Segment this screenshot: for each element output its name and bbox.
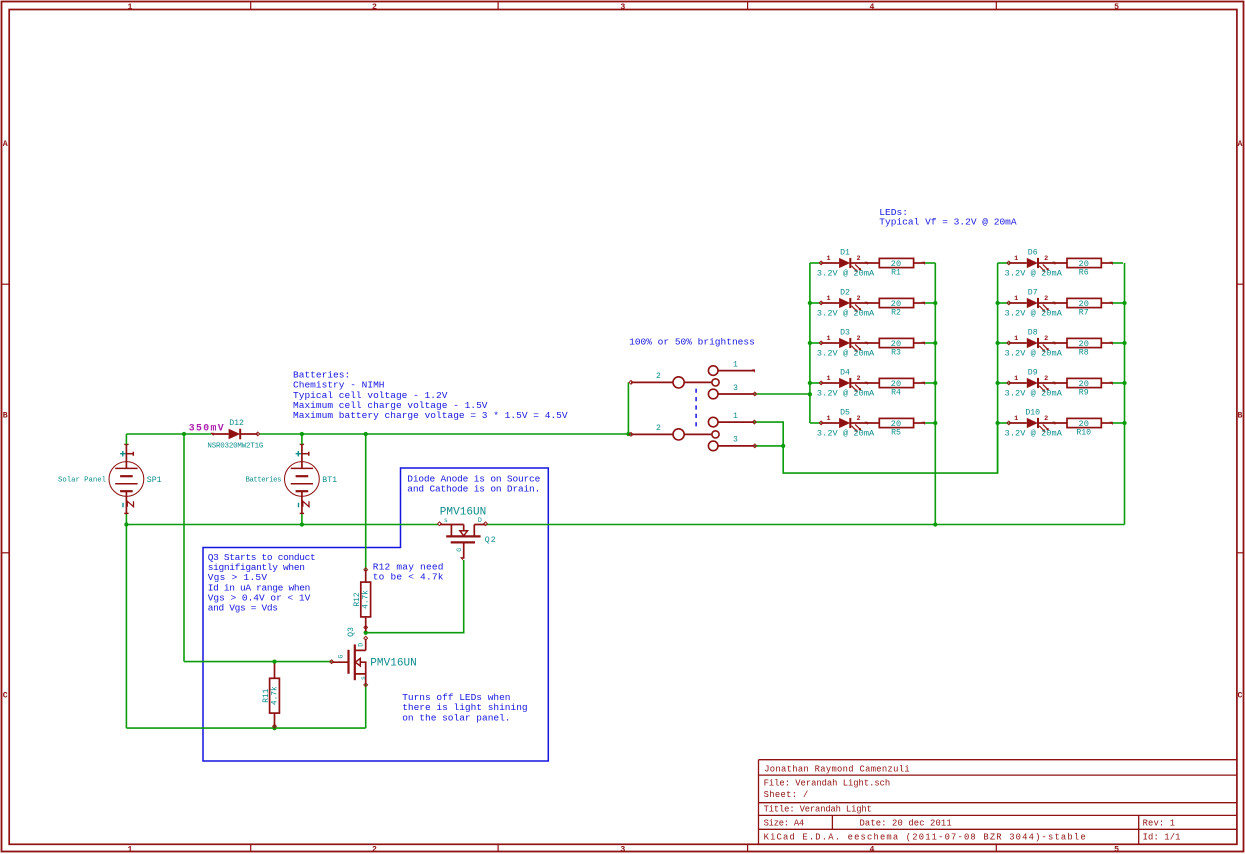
svg-text:2: 2: [856, 335, 860, 343]
svg-text:2: 2: [1044, 415, 1048, 423]
wire left vertical to bottom: [125, 525, 127, 729]
svg-text:3.2V @ 20mA: 3.2V @ 20mA: [817, 268, 875, 278]
svg-text:Solar Panel: Solar Panel: [58, 477, 106, 485]
svg-text:2: 2: [372, 845, 377, 854]
LED D8: [998, 342, 1009, 344]
svg-text:1: 1: [826, 255, 830, 263]
battery symbol BT1: [285, 462, 320, 497]
resistor R4: [879, 378, 913, 387]
svg-text:Batteries: Batteries: [246, 477, 282, 485]
svg-text:PMV16UN: PMV16UN: [370, 657, 416, 669]
svg-text:3.2V @ 20mA: 3.2V @ 20mA: [1005, 388, 1063, 398]
svg-text:B: B: [3, 412, 8, 421]
svg-text:20: 20: [891, 379, 901, 389]
svg-text:D9: D9: [1028, 369, 1038, 378]
wire bottom horizontal: [126, 727, 365, 729]
wire switch bottom pin3 stub: [755, 445, 783, 447]
svg-text:2: 2: [1044, 295, 1048, 303]
svg-text:3: 3: [733, 384, 738, 393]
svg-text:s: s: [360, 676, 367, 680]
wire switch pole vertical: [627, 382, 629, 434]
svg-text:1: 1: [826, 335, 830, 343]
svg-text:1: 1: [1014, 295, 1018, 303]
LED D4: [810, 382, 821, 384]
svg-text:Title: Verandah Light: Title: Verandah Light: [764, 805, 872, 815]
note box around Q3 and Q2 notes: [203, 468, 548, 761]
svg-text:3.2V @ 20mA: 3.2V @ 20mA: [817, 308, 875, 318]
svg-text:3.2V @ 20mA: 3.2V @ 20mA: [817, 388, 875, 398]
svg-text:1: 1: [1014, 415, 1018, 423]
LED D9: [998, 382, 1009, 384]
wire lower net right of Q2: [486, 524, 1124, 526]
svg-text:R2: R2: [891, 309, 901, 318]
wire Q3 source down: [365, 685, 367, 729]
wire gate vertical: [183, 434, 185, 662]
resistor R7: [1067, 298, 1101, 307]
switch pole A: [631, 381, 673, 383]
svg-text:3: 3: [733, 436, 738, 445]
junction BT1+: [300, 432, 304, 436]
svg-text:D5: D5: [840, 409, 850, 418]
junction Q3 drain / R12 bottom: [364, 626, 368, 630]
svg-text:PMV16UN: PMV16UN: [440, 507, 486, 519]
svg-text:Maximum battery charge voltage: Maximum battery charge voltage = 3 * 1.5…: [293, 410, 568, 421]
resistor R6: [1067, 258, 1101, 267]
svg-text:20: 20: [891, 259, 901, 269]
svg-text:2: 2: [656, 372, 661, 381]
wire LED col1 left vertical: [809, 263, 811, 423]
svg-text:2: 2: [856, 295, 860, 303]
LED D3: [810, 342, 821, 344]
switch linkage dashed line: [695, 389, 697, 429]
svg-text:4: 4: [869, 3, 874, 12]
svg-text:Rev: 1: Rev: 1: [1143, 819, 1175, 829]
svg-text:4.7k: 4.7k: [363, 590, 371, 609]
svg-text:20: 20: [1079, 259, 1089, 269]
svg-text:R6: R6: [1079, 269, 1089, 278]
svg-text:20: 20: [891, 339, 901, 349]
svg-text:File: Verandah Light.sch: File: Verandah Light.sch: [764, 779, 891, 789]
svg-text:5: 5: [1114, 845, 1119, 854]
svg-text:G: G: [456, 548, 463, 552]
junction R12 branch: [364, 432, 368, 436]
svg-text:4: 4: [869, 845, 874, 854]
resistor R2: [879, 298, 913, 307]
battery symbol SP1: [109, 462, 144, 497]
border row ticks: [2, 283, 10, 285]
svg-text:D8: D8: [1028, 329, 1038, 338]
resistor R9: [1067, 378, 1101, 387]
svg-text:2: 2: [1044, 255, 1048, 263]
wire D12 cathode to switch: [259, 433, 632, 435]
junction SP1-: [124, 522, 128, 526]
svg-text:on the solar panel.: on the solar panel.: [402, 712, 510, 723]
svg-text:R5: R5: [891, 429, 901, 438]
svg-text:D1: D1: [840, 249, 850, 258]
wire switch bottom pin1 path: [754, 422, 998, 473]
wire gate horizontal to Q3: [184, 661, 332, 663]
svg-text:1: 1: [127, 3, 132, 12]
svg-text:20: 20: [1079, 419, 1089, 429]
junction at gate branch: [182, 432, 186, 436]
svg-text:2: 2: [372, 3, 377, 12]
junction col1 right rows: [933, 301, 937, 305]
svg-text:5: 5: [1114, 3, 1119, 12]
svg-text:4.7k: 4.7k: [271, 686, 279, 705]
svg-text:3.2V @ 20mA: 3.2V @ 20mA: [1005, 428, 1063, 438]
svg-text:2: 2: [656, 424, 661, 433]
junction col1 right bottom: [933, 522, 937, 526]
svg-text:1: 1: [127, 845, 132, 854]
svg-text:Typical Vf = 3.2V @ 20mA: Typical Vf = 3.2V @ 20mA: [879, 217, 1017, 228]
svg-text:1: 1: [1014, 335, 1018, 343]
svg-text:C: C: [1238, 692, 1243, 701]
junction col1 left feeds: [808, 301, 812, 305]
junction R11 top: [272, 659, 276, 663]
wire SP1+ to D12 anode: [126, 433, 211, 435]
wire lower net left: [126, 524, 438, 526]
LED D6: [998, 262, 1009, 264]
wire SP1 bottom stub: [125, 513, 127, 524]
svg-text:1: 1: [733, 412, 738, 421]
svg-text:Q2: Q2: [485, 536, 497, 545]
svg-text:1: 1: [733, 360, 738, 369]
junction BT1-: [300, 522, 304, 526]
svg-text:2: 2: [856, 415, 860, 423]
svg-text:NSR0320MW2T1G: NSR0320MW2T1G: [207, 443, 263, 451]
junction col2 left rows: [995, 301, 999, 305]
svg-text:20: 20: [1079, 379, 1089, 389]
LED D5: [810, 422, 821, 424]
wire LED col2 left vertical: [997, 263, 999, 473]
junction switch bottom: [781, 444, 785, 448]
svg-text:1: 1: [1014, 255, 1018, 263]
svg-text:Date: 20 dec 2011: Date: 20 dec 2011: [860, 819, 952, 829]
svg-text:D2: D2: [840, 289, 850, 298]
LED D1: [810, 262, 821, 264]
svg-text:3.2V @ 20mA: 3.2V @ 20mA: [1005, 348, 1063, 358]
LED D2: [810, 302, 821, 304]
svg-text:1: 1: [1014, 375, 1018, 383]
svg-text:BT1: BT1: [322, 476, 337, 485]
svg-text:B: B: [1238, 412, 1243, 421]
wire Q2 gate net: [366, 560, 464, 633]
LED D7: [998, 302, 1009, 304]
switch pole B: [631, 433, 673, 435]
resistor R12: [361, 582, 371, 617]
svg-text:G: G: [337, 654, 344, 658]
wire switch top pin3 to col1: [755, 393, 810, 395]
svg-text:D6: D6: [1028, 249, 1038, 258]
svg-text:R8: R8: [1079, 349, 1089, 358]
resistor R10: [1067, 418, 1101, 427]
svg-text:R1: R1: [891, 269, 901, 278]
svg-text:20: 20: [891, 299, 901, 309]
svg-text:20: 20: [1079, 299, 1089, 309]
resistor R5: [879, 418, 913, 427]
title block text: [764, 764, 1181, 842]
svg-text:D12: D12: [229, 419, 244, 428]
svg-text:KiCad E.D.A. eeschema (2011-0: KiCad E.D.A. eeschema (2011-07-08 BZR 30…: [764, 833, 1086, 843]
junction R11 bottom: [272, 726, 276, 730]
resistor R3: [879, 338, 913, 347]
svg-text:to be < 4.7k: to be < 4.7k: [373, 572, 444, 583]
svg-text:20: 20: [1079, 339, 1089, 349]
resistor R1: [879, 258, 913, 267]
svg-text:1: 1: [826, 295, 830, 303]
svg-text:3: 3: [620, 845, 625, 854]
svg-text:20: 20: [891, 419, 901, 429]
svg-text:R9: R9: [1079, 389, 1089, 398]
svg-text:2: 2: [1044, 335, 1048, 343]
svg-text:100% or 50% brightness: 100% or 50% brightness: [629, 337, 755, 348]
wire LED col2 right vertical: [1124, 263, 1126, 525]
resistor R8: [1067, 338, 1101, 347]
svg-text:3.2V @ 20mA: 3.2V @ 20mA: [817, 428, 875, 438]
svg-text:C: C: [3, 692, 8, 701]
svg-text:1: 1: [826, 375, 830, 383]
svg-text:Sheet: /: Sheet: /: [764, 790, 809, 800]
svg-text:Id: 1/1: Id: 1/1: [1143, 833, 1181, 843]
svg-text:3: 3: [620, 3, 625, 12]
svg-text:350mV: 350mV: [189, 423, 224, 434]
svg-text:2: 2: [856, 375, 860, 383]
svg-text:R11: R11: [263, 688, 271, 702]
svg-text:SP1: SP1: [147, 476, 162, 485]
LED D10: [998, 422, 1009, 424]
transistor Q3: [332, 639, 366, 685]
svg-text:R7: R7: [1079, 309, 1089, 318]
svg-text:D10: D10: [1025, 409, 1040, 418]
svg-text:A: A: [1238, 140, 1243, 149]
svg-text:Size: A4: Size: A4: [764, 819, 805, 829]
svg-text:D4: D4: [840, 369, 850, 378]
svg-text:D3: D3: [840, 329, 850, 338]
svg-text:D: D: [358, 643, 365, 647]
junction col2 right rows: [1122, 301, 1126, 305]
wire LED col1 right vertical: [934, 263, 936, 525]
svg-text:3.2V @ 20mA: 3.2V @ 20mA: [1005, 268, 1063, 278]
svg-text:Q3: Q3: [347, 627, 356, 637]
diode D12: [210, 433, 213, 436]
title block frame: [759, 760, 1237, 845]
svg-text:3.2V @ 20mA: 3.2V @ 20mA: [817, 348, 875, 358]
svg-text:Jonathan Raymond Camenzuli: Jonathan Raymond Camenzuli: [764, 764, 909, 774]
resistor R11: [270, 678, 280, 713]
transistor Q2: [438, 522, 442, 526]
svg-text:1: 1: [826, 415, 830, 423]
border column ticks: [250, 2, 252, 10]
svg-text:A: A: [3, 140, 8, 149]
wire R12 vertical from top net: [365, 434, 367, 570]
svg-text:R3: R3: [891, 349, 901, 358]
wire BT1 bottom stub: [301, 513, 303, 524]
junction switch branch: [626, 432, 630, 436]
svg-text:and Cathode is on Drain.: and Cathode is on Drain.: [407, 484, 540, 495]
svg-text:3.2V @ 20mA: 3.2V @ 20mA: [1005, 308, 1063, 318]
svg-text:R12: R12: [354, 592, 362, 606]
svg-text:R4: R4: [891, 389, 901, 398]
svg-text:and Vgs = Vds: and Vgs = Vds: [208, 603, 278, 614]
svg-text:2: 2: [1044, 375, 1048, 383]
svg-text:R10: R10: [1076, 429, 1091, 438]
svg-text:2: 2: [856, 255, 860, 263]
svg-text:D7: D7: [1028, 289, 1038, 298]
